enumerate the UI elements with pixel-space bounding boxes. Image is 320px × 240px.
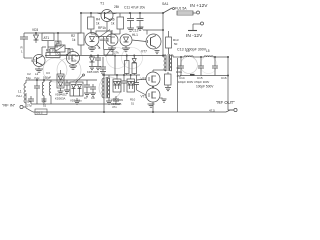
wire comp rail y104	[31, 103, 120, 105]
toroid core faint circle L5	[200, 57, 217, 74]
wire VT1 top	[42, 47, 46, 56]
node j115-55	[114, 55, 116, 57]
label C15	[197, 76, 203, 80]
svg-text:B1.2: B1.2	[37, 111, 44, 115]
node j36	[35, 32, 37, 34]
label IN -12V	[186, 33, 203, 39]
svg-text:T1: T1	[100, 2, 104, 6]
svg-text:2Bt: 2Bt	[114, 5, 119, 9]
wire RF IN	[23, 106, 26, 108]
capacitor x116 low	[112, 96, 119, 109]
transistor VT7	[138, 27, 161, 54]
ground x93	[90, 93, 96, 96]
node j201	[200, 56, 202, 58]
svg-text:1k: 1k	[72, 38, 76, 42]
wire terminal -12V	[188, 24, 201, 31]
ground x103	[100, 72, 106, 75]
ground x87	[84, 93, 90, 96]
resistor R2	[71, 33, 84, 55]
capacitor C16b	[212, 57, 218, 76]
node j37-80	[36, 79, 38, 81]
label cap values1	[178, 80, 209, 84]
capacitor C11	[127, 13, 134, 28]
ground under C11	[127, 28, 134, 31]
svg-text:L1: L1	[18, 90, 22, 94]
toroid core faint circle left-b	[57, 58, 81, 82]
svg-text:IN +12V: IN +12V	[190, 3, 208, 9]
node j44-80	[42, 79, 47, 101]
node j163	[162, 12, 164, 14]
wire VT3 down	[152, 102, 154, 112]
diode box VD67	[113, 74, 121, 92]
node j215	[214, 56, 216, 58]
node j140	[139, 12, 141, 14]
svg-text:KD5 KD5: KD5 KD5	[87, 70, 99, 74]
svg-text:C3: C3	[46, 71, 50, 75]
terminal RF IN	[20, 105, 23, 108]
ground under tall box	[58, 91, 64, 94]
capacitor CinA	[34, 80, 40, 104]
transistor VT1	[31, 55, 45, 67]
svg-text:47n: 47n	[112, 105, 117, 109]
svg-text:AT1: AT1	[44, 36, 50, 40]
label C11 value	[124, 6, 145, 10]
wire VT2 drain	[153, 70, 166, 72]
label C3	[43, 71, 51, 80]
ground mid bar	[190, 74, 195, 76]
svg-text:C11 47uF 20v: C11 47uF 20v	[124, 6, 145, 10]
svg-text:AL1,2: AL1,2	[100, 38, 109, 42]
ground VT3 below	[148, 104, 155, 107]
svg-text:KD503A: KD503A	[55, 97, 66, 101]
trimmer RP2	[104, 49, 119, 57]
svg-text:SA1: SA1	[162, 2, 169, 6]
wire gates	[137, 79, 147, 95]
ground x77	[74, 98, 80, 104]
label input diodes2	[70, 99, 82, 103]
capacitor C7 in	[84, 80, 90, 93]
wire VT7 up	[146, 30, 148, 35]
node jbot152	[103, 111, 154, 113]
switch SA1	[162, 2, 175, 13]
label L2 7uH	[34, 72, 39, 80]
svg-text:7uH: 7uH	[34, 76, 39, 80]
resistor R13	[166, 37, 179, 48]
svg-text:27k: 27k	[114, 51, 119, 55]
label RF OUT	[216, 100, 235, 105]
node j98-55	[97, 55, 99, 57]
capacitor C12	[133, 13, 144, 33]
inductor L1	[16, 83, 26, 107]
svg-text:VD3: VD3	[32, 28, 38, 32]
svg-text:L5: L5	[206, 49, 210, 53]
label diode row	[87, 70, 99, 74]
ground VT3 right	[160, 98, 167, 102]
wire out rail y57	[171, 55, 228, 57]
wire y75 mid	[102, 74, 140, 76]
trim switch diag	[76, 74, 85, 86]
svg-text:1k: 1k	[96, 22, 100, 26]
fuse FU1	[175, 7, 193, 15]
transistor VT3	[141, 88, 161, 102]
node j91	[90, 12, 92, 14]
svg-text:“RF OUT”: “RF OUT”	[216, 100, 235, 105]
node j81	[80, 12, 82, 14]
label C13	[177, 48, 207, 52]
node j130	[129, 12, 131, 14]
wire out gnd rail	[180, 75, 229, 77]
diode box VD89	[127, 74, 135, 92]
node j58	[57, 32, 59, 34]
label IN +12V	[190, 3, 208, 9]
svg-text:C16: C16	[221, 76, 227, 80]
trimmer RP1	[96, 26, 111, 38]
svg-text:51: 51	[131, 102, 135, 106]
box small 5b	[55, 41, 61, 46]
ground VT5	[108, 46, 116, 51]
capacitor x103	[100, 57, 106, 71]
svg-text:C13 1000pF 300V: C13 1000pF 300V	[177, 48, 207, 52]
transistor VT4	[67, 52, 80, 65]
ground AL1	[88, 47, 96, 52]
transformer T2	[102, 77, 110, 98]
wire RP1-R6	[111, 29, 120, 34]
svg-text:FU1 5A: FU1 5A	[175, 7, 187, 11]
label input diodes	[55, 93, 67, 101]
inductor L4	[184, 49, 193, 57]
wire to RF OUT	[178, 58, 234, 112]
wire R1 right	[60, 54, 68, 56]
wire y30 mid	[143, 29, 164, 31]
diode+resistor Rm2	[132, 56, 137, 76]
toroid core faint circle left-a	[43, 58, 67, 82]
svg-text:“RF IN”: “RF IN”	[2, 103, 16, 108]
svg-text:100u: 100u	[176, 70, 182, 74]
capacitor CinB	[28, 96, 34, 104]
label 47.5	[209, 109, 215, 113]
capacitor x136	[134, 75, 139, 90]
label C16	[221, 76, 227, 80]
wire VT4 top	[68, 49, 73, 55]
wire x168 up	[168, 31, 170, 54]
label under capA	[27, 100, 32, 108]
node j67-55	[66, 54, 68, 56]
ground x98	[95, 67, 101, 70]
box AT1	[42, 33, 54, 41]
terminal IN-12V	[201, 22, 204, 25]
transformer T3	[164, 54, 172, 71]
svg-text:100pF 500V: 100pF 500V	[196, 85, 214, 89]
resistor R14	[165, 66, 183, 91]
wire T2 top	[103, 74, 109, 78]
svg-text:VT1: VT1	[31, 59, 37, 63]
label C14	[179, 76, 185, 80]
svg-text:50: 50	[174, 42, 178, 46]
capacitor C14b	[178, 56, 184, 76]
svg-text:100pF 300V 470pF 300V: 100pF 300V 470pF 300V	[178, 80, 209, 84]
ground T2b	[106, 101, 112, 104]
svg-text:VD3 0,5u: VD3 0,5u	[70, 99, 82, 103]
resistor R4	[88, 13, 101, 29]
diode VD3	[32, 28, 39, 43]
wire x115	[114, 56, 116, 76]
svg-text:RP1k: RP1k	[98, 26, 106, 30]
node VT2-VT3	[152, 86, 154, 88]
ground VT1	[35, 68, 43, 73]
svg-text:HL1: HL1	[132, 33, 138, 37]
toroid core faint circle mid-a	[107, 48, 128, 69]
capacitor C15b	[198, 57, 204, 76]
label C2 51	[26, 72, 31, 80]
trimcap C5	[50, 41, 70, 57]
ground x92	[89, 67, 95, 70]
terminal IN+12V	[197, 11, 200, 14]
wire y30 stub	[90, 30, 92, 33]
wire x163 down	[162, 13, 164, 57]
transistor VT2	[141, 72, 161, 86]
label RF IN	[2, 103, 16, 108]
wire R4 down	[90, 29, 92, 34]
inductor L5	[204, 49, 213, 57]
wire VT7 gate	[132, 40, 160, 54]
capacitor C4 left	[20, 33, 28, 53]
wire VT1 base	[24, 42, 33, 58]
wire T1 right	[107, 13, 117, 31]
wire bottom rail	[26, 107, 234, 112]
svg-text:100pF: 100pF	[43, 76, 51, 80]
ground under C12	[137, 27, 144, 30]
wire left rail y33	[24, 32, 81, 34]
capacitor C8 in	[90, 84, 96, 93]
svg-text:150: 150	[177, 74, 182, 78]
label VD6-VD9	[111, 98, 123, 106]
capacitor x98	[95, 56, 101, 67]
capacitor x67	[64, 80, 70, 93]
toroid core faint circle L4	[181, 57, 198, 74]
wire T1 left	[97, 13, 102, 14]
toroid core faint circle mid-b	[122, 48, 143, 69]
wire RP1 wiper	[103, 37, 105, 50]
node j134-55	[133, 55, 135, 57]
resistor R1	[46, 53, 60, 58]
svg-text:C5: C5	[56, 41, 60, 45]
wire AT1 down	[47, 41, 49, 47]
capacitor x124	[122, 74, 127, 92]
ground VT4	[69, 65, 77, 70]
label under capB	[42, 100, 47, 108]
svg-text:7uH: 7uH	[16, 94, 22, 98]
diode HL1	[120, 33, 138, 46]
wire top rail y13	[81, 12, 163, 14]
inductor L2	[42, 80, 44, 104]
wire x58 to R1	[48, 33, 58, 53]
wire x228 down	[227, 56, 229, 110]
ground HL1	[122, 46, 130, 51]
transistor T1	[100, 2, 119, 22]
svg-text:51p: 51p	[26, 76, 31, 80]
label C7 C8	[84, 96, 95, 100]
svg-text:1k: 1k	[111, 22, 115, 26]
resistor Rm1	[125, 56, 130, 76]
svg-text:VT: VT	[75, 54, 79, 58]
wire R4-RP1	[91, 33, 96, 35]
node j91-55	[90, 55, 92, 57]
node j126-55	[126, 55, 128, 57]
diode box input wide	[70, 82, 83, 96]
wire input rail y80	[26, 80, 97, 83]
svg-text:VT7: VT7	[141, 50, 147, 54]
terminal RF OUT	[234, 108, 237, 111]
resistor R6	[111, 13, 124, 29]
label cap values2	[196, 85, 214, 89]
wire x81 down	[80, 13, 82, 33]
node j163-55	[162, 55, 164, 57]
label B1.2 box	[35, 109, 47, 115]
label R10	[130, 98, 136, 106]
svg-text:KT9: KT9	[138, 27, 144, 31]
wire T2 bottom	[104, 98, 109, 112]
svg-text:L4: L4	[186, 49, 190, 53]
label R1	[46, 49, 57, 53]
svg-text:10n: 10n	[55, 53, 60, 57]
transistor VT5	[106, 30, 118, 46]
toroid core faint circle T2	[99, 77, 121, 99]
wire mid rail y55	[45, 55, 163, 57]
LED AL1	[85, 33, 109, 49]
wire fuse to terminal	[193, 12, 196, 14]
inductor L3	[49, 80, 51, 104]
diode VD x92	[90, 56, 95, 67]
diode box input tall	[57, 70, 64, 91]
wire T3 top	[163, 54, 166, 56]
svg-text:IN -12V: IN -12V	[186, 33, 203, 39]
